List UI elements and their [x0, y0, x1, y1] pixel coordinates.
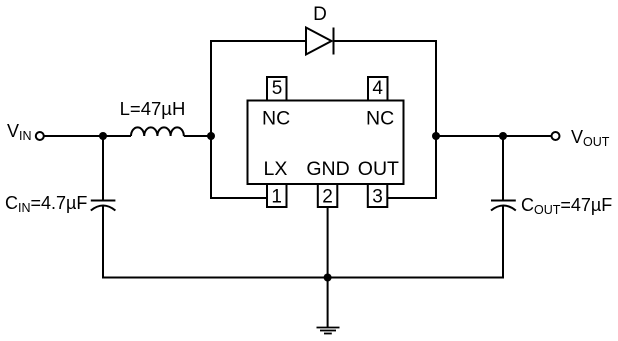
svg-text:5: 5	[272, 78, 283, 99]
svg-text:NC: NC	[366, 108, 394, 130]
wire ground rail	[102, 277, 503, 279]
pin 5 box	[267, 77, 287, 101]
wire top rail to diode anode	[210, 40, 306, 42]
svg-text:NC: NC	[262, 108, 290, 130]
wire inductor to node B	[184, 135, 211, 137]
svg-text:L=47µH: L=47µH	[120, 98, 186, 119]
node A junction	[99, 132, 107, 140]
wire diode cathode to right riser	[334, 40, 438, 42]
inductor L	[131, 127, 184, 136]
wire CIN to ground rail	[102, 206, 104, 279]
svg-text:CIN=4.7µF: CIN=4.7µF	[5, 193, 87, 215]
terminal VIN	[36, 132, 44, 140]
wire COUT to ground rail	[502, 206, 504, 279]
node B junction	[207, 132, 215, 140]
node C junction	[432, 132, 440, 140]
wire node C to VOUT	[436, 135, 551, 137]
capacitor CIN	[91, 201, 116, 211]
svg-text:GND: GND	[306, 158, 349, 180]
ground	[317, 328, 340, 334]
wire ground stem	[327, 278, 329, 328]
wire node A down to CIN	[102, 136, 104, 200]
svg-text:D: D	[313, 4, 327, 25]
diode D	[306, 28, 334, 55]
svg-text:3: 3	[372, 187, 383, 208]
svg-text:2: 2	[322, 187, 333, 208]
wire pin 3 to right riser	[387, 197, 437, 199]
wire VIN terminal to node A	[45, 135, 104, 137]
wire pin 2 to ground rail	[327, 207, 329, 278]
node E ground junction	[324, 274, 332, 282]
terminal VOUT	[552, 132, 560, 140]
wire node B up left riser	[210, 40, 212, 135]
svg-text:LX: LX	[264, 158, 288, 180]
wire node A to inductor	[103, 135, 131, 137]
wire node B down to pin 1 level	[210, 136, 212, 199]
pin 2 box	[318, 184, 338, 207]
svg-text:OUT: OUT	[358, 158, 399, 180]
wire to pin 1	[210, 197, 267, 199]
wire right riser	[435, 40, 437, 199]
IC U1 body	[248, 101, 404, 185]
node D junction	[499, 132, 507, 140]
pin 1 box	[267, 184, 287, 207]
svg-text:1: 1	[271, 187, 282, 208]
pin 3 box	[368, 184, 388, 207]
pin 4 box	[368, 77, 388, 101]
capacitor COUT	[491, 201, 516, 211]
svg-text:4: 4	[372, 78, 383, 99]
wire node D down to COUT	[502, 136, 504, 200]
